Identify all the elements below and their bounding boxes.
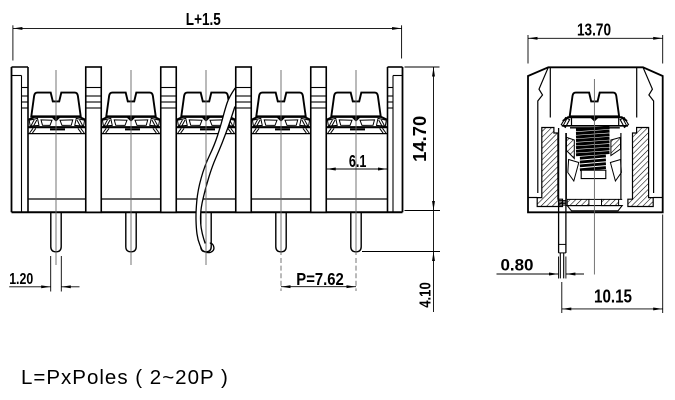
clamp washer (side) [563, 117, 627, 121]
solder pin pole 4 [276, 212, 286, 252]
screw head seat ticks [571, 117, 573, 126]
dimension 1.20 [50, 256, 52, 292]
clamp washer pole 3 [177, 117, 235, 120]
screw head pole 2 [106, 93, 155, 117]
base hatched strips [567, 199, 589, 205]
side housing left inner profile [538, 67, 549, 193]
screw head pole 1 [31, 93, 80, 117]
solder pin pole 1 [51, 212, 61, 252]
washer lower edge line [570, 127, 620, 129]
svg-text:L=PxPoles ( 2~20P ): L=PxPoles ( 2~20P ) [21, 366, 229, 389]
clamp washer pole 4 [252, 117, 310, 120]
svg-text:4.10: 4.10 [417, 282, 434, 308]
screw tip [581, 170, 606, 178]
washer left end tab [561, 118, 569, 128]
screw head (side) [570, 93, 619, 117]
svg-text:L+1.5: L+1.5 [186, 9, 221, 29]
separator wall 1 [86, 67, 102, 212]
screw head pole 5 [331, 93, 380, 117]
left end wall [11, 67, 13, 212]
side housing right inner profile [643, 67, 654, 193]
svg-text:14.70: 14.70 [410, 116, 430, 162]
svg-text:10.15: 10.15 [594, 287, 632, 307]
solder pin pole 5 [351, 212, 361, 252]
solder pin pole 2 [126, 212, 136, 252]
screw head pole 4 [256, 93, 305, 117]
dimension 4.10 [362, 251, 440, 253]
clamp washer pole 2 [102, 117, 160, 120]
dashed pitch extension lines [280, 258, 282, 291]
left nut flank (hatched) [567, 137, 575, 158]
dimension 0.80 [558, 257, 560, 279]
svg-text:0.80: 0.80 [501, 256, 534, 274]
svg-text:6.1: 6.1 [349, 151, 367, 171]
dimension L+1.5 [12, 25, 14, 60]
right funnel guide [610, 160, 621, 182]
body base rail line [28, 198, 86, 200]
dimension 10.15 [561, 282, 563, 313]
separator wall 4 [311, 67, 327, 212]
svg-text:P=7.62: P=7.62 [296, 269, 344, 289]
base boss outline [567, 206, 622, 211]
left wall cross-section (hatched) [537, 128, 562, 207]
side view housing outline [528, 67, 663, 212]
right wall cross-section (hatched) [628, 128, 653, 207]
screw head pole 3 [181, 93, 230, 117]
screw axis centerline [593, 79, 595, 275]
pole centerlines [55, 70, 57, 265]
break line (wave) through pole 3 [196, 88, 235, 250]
base step lines [528, 197, 537, 199]
chamber walls [565, 133, 567, 199]
svg-text:13.70: 13.70 [577, 20, 611, 40]
washer right end tab [620, 118, 628, 128]
dimension P=7.62 [281, 286, 356, 288]
svg-text:1.20: 1.20 [9, 271, 33, 288]
pin crimp marks [559, 200, 566, 202]
terminal block body bottom edge [12, 211, 403, 213]
dimension 6.1 [326, 168, 387, 170]
left funnel guide [568, 160, 579, 182]
screw thread (section) [576, 128, 610, 130]
dimension 14.70 [405, 66, 440, 68]
right end wall [402, 67, 404, 212]
separator wall 2 [161, 67, 177, 212]
solder pin (side) [558, 128, 560, 253]
separator wall 3 [236, 67, 252, 212]
clamp washer pole 5 [327, 117, 387, 120]
right nut flank (hatched) [611, 137, 621, 155]
dimension 13.70 [527, 35, 529, 64]
side housing inner top verticals [549, 67, 551, 117]
clamp washer pole 1 [29, 117, 86, 120]
solder pin pole 3 [201, 212, 211, 252]
